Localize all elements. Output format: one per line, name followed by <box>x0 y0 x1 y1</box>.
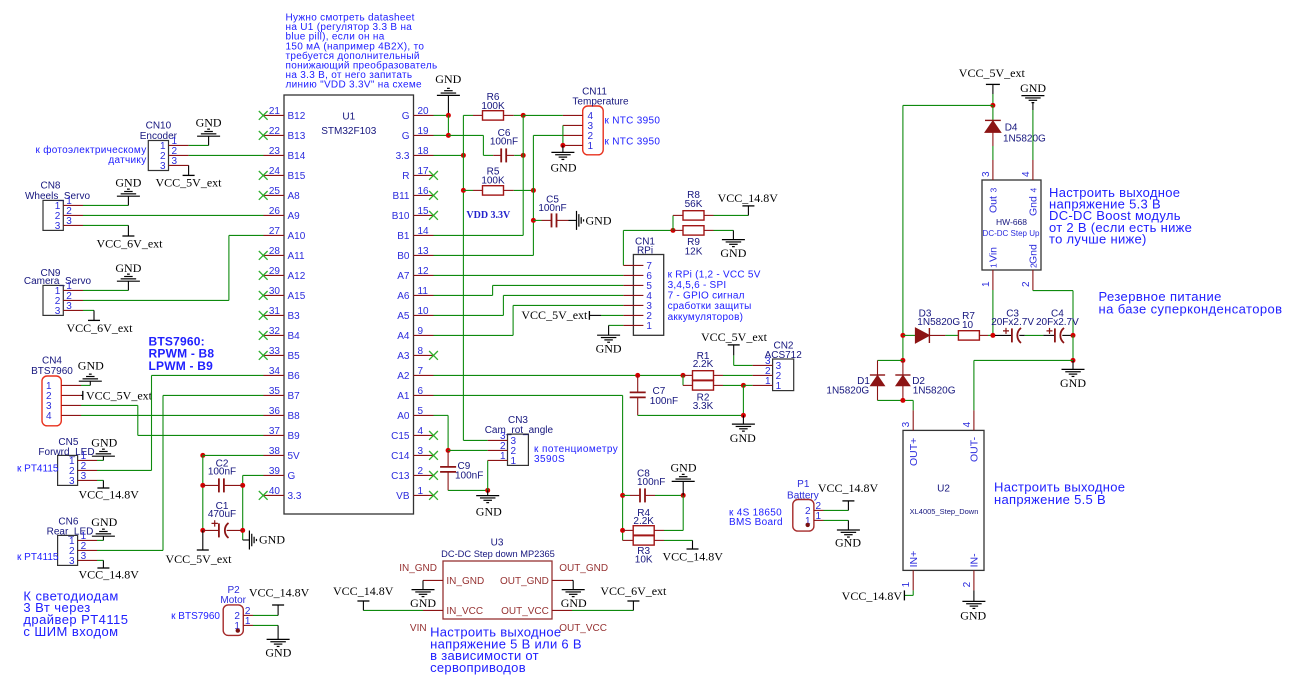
svg-text:12K: 12K <box>685 246 703 257</box>
no-connect X on U1 pin 4 <box>429 431 438 440</box>
CN1 pin 7 <box>623 264 643 266</box>
svg-text:BTS7960: BTS7960 <box>31 366 73 377</box>
U1 pin 33 B5 <box>264 354 285 356</box>
svg-text:7 - GPIO сигнал: 7 - GPIO сигнал <box>668 291 745 302</box>
wire C4 right down to GND node <box>1072 335 1074 360</box>
svg-text:GND: GND <box>78 358 104 372</box>
CN1 pin 5 <box>623 284 643 286</box>
svg-text:27: 27 <box>269 226 281 237</box>
no-connect X on U1 pin 25 <box>259 191 268 200</box>
svg-text:то лучше ниже): то лучше ниже) <box>1049 232 1147 247</box>
U1 pin 28 A11 <box>264 254 285 256</box>
wire VDD to R6 left <box>463 114 473 116</box>
svg-text:OUT_GND: OUT_GND <box>559 563 608 574</box>
svg-text:30: 30 <box>269 286 281 297</box>
node junction R4 left <box>620 528 625 533</box>
svg-text:GND: GND <box>596 342 622 356</box>
P2 pin 1 <box>243 624 253 626</box>
CN9 pin 1 <box>63 289 83 291</box>
svg-text:20Fx2.7V: 20Fx2.7V <box>991 317 1034 328</box>
CN11 pin 2 <box>563 134 583 136</box>
U1 pin 35 B7 <box>264 394 285 396</box>
svg-text:LPWM - B9: LPWM - B9 <box>149 359 214 373</box>
no-connect X on U1 pin 15 <box>429 211 438 220</box>
connector CN6 body <box>58 535 78 565</box>
svg-text:C15: C15 <box>391 431 410 442</box>
power VCC_6V_ext at CN8 pin3 <box>127 225 129 236</box>
wire R3 right to VCC_14.8V <box>664 539 693 541</box>
svg-text:GND: GND <box>476 505 502 519</box>
U1 pin 3 C14 <box>414 454 434 456</box>
ground symbol at U2 IN- <box>973 590 975 601</box>
svg-text:A2: A2 <box>397 371 410 382</box>
svg-text:A6: A6 <box>397 291 410 302</box>
svg-text:10: 10 <box>418 306 430 317</box>
svg-text:к NTC 3950: к NTC 3950 <box>605 136 661 147</box>
svg-text:1N5820G: 1N5820G <box>826 386 869 397</box>
CN11 pin 1 <box>563 144 583 146</box>
capacitor C9 <box>447 450 449 467</box>
svg-text:36: 36 <box>269 406 281 417</box>
CN2 pin 2 <box>753 374 773 376</box>
CN11 pin 4 <box>563 114 583 116</box>
ground symbol right of C5 <box>569 219 577 221</box>
svg-text:100nF: 100nF <box>650 396 678 407</box>
svg-text:1: 1 <box>989 263 999 268</box>
regulator U3 body <box>443 561 552 619</box>
no-connect X on U1 pin 3 <box>429 451 438 460</box>
svg-text:3.3: 3.3 <box>288 491 302 502</box>
wire U1 G pin39 to C2/C1 right <box>243 474 264 476</box>
no-connect X on U1 pin 24 <box>259 171 268 180</box>
U3 pin IN_GND <box>423 579 443 581</box>
svg-text:1: 1 <box>646 321 652 332</box>
U1 pin 34 B6 <box>264 374 285 376</box>
svg-text:Gnd: Gnd <box>1028 244 1040 264</box>
resistor R2 <box>682 375 684 385</box>
svg-text:1: 1 <box>511 456 517 467</box>
U1 pin 24 B15 <box>264 174 285 176</box>
node junction C4 right <box>1071 333 1076 338</box>
U1 pin 9 A4 <box>414 334 434 336</box>
svg-text:IN_VCC: IN_VCC <box>446 606 483 617</box>
resistor R6 <box>473 114 483 116</box>
U1 pin 30 A15 <box>264 294 285 296</box>
HW-668 pin 2 Gnd bottom <box>1032 270 1034 290</box>
svg-text:3.3K: 3.3K <box>693 401 714 412</box>
svg-text:сработки защиты: сработки защиты <box>668 300 752 312</box>
svg-text:к фотоэлектрическому: к фотоэлектрическому <box>35 144 146 156</box>
wire CN10 pin1 to GND <box>189 144 209 146</box>
svg-text:22: 22 <box>269 126 281 137</box>
wire GND vertical pin20 to pin19 <box>447 115 449 135</box>
wire U1 A0 to CN3 pin2 <box>434 414 449 416</box>
svg-text:17: 17 <box>418 166 430 177</box>
no-connect X on U1 pin 31 <box>259 311 268 320</box>
wire C6 right to junction <box>514 154 523 156</box>
wire backup rail vertical <box>902 105 904 360</box>
svg-text:RPi: RPi <box>637 246 653 257</box>
svg-text:B10: B10 <box>392 211 410 222</box>
node junction R6 right <box>521 113 526 118</box>
svg-text:9: 9 <box>418 326 424 337</box>
svg-text:OUT_VCC: OUT_VCC <box>559 623 607 634</box>
svg-text:35: 35 <box>269 386 281 397</box>
node junction D2 anode <box>900 398 905 403</box>
svg-text:23: 23 <box>269 146 281 157</box>
U2 pin 3 OUT+ <box>912 410 914 430</box>
ground symbol at CN8 pin1 <box>127 196 129 205</box>
U1 pin 38 5V <box>264 454 285 456</box>
node junction A0/C9/CN3.2 <box>446 448 451 453</box>
no-connect X on U1 pin 28 <box>259 251 268 260</box>
ground symbol at CN1 pin1 <box>608 325 610 335</box>
U1 pin 31 B3 <box>264 314 285 316</box>
U1 pin 26 A9 <box>264 214 285 216</box>
svg-text:к PT4115: к PT4115 <box>17 552 59 563</box>
svg-text:OUT+: OUT+ <box>908 438 920 466</box>
ground symbol right of C1 <box>243 539 250 541</box>
svg-text:C13: C13 <box>391 471 410 482</box>
svg-text:D4: D4 <box>1005 122 1018 133</box>
svg-text:GND: GND <box>265 646 291 660</box>
diode D4 <box>992 105 994 120</box>
svg-text:3: 3 <box>989 188 999 193</box>
svg-text:1: 1 <box>776 381 782 392</box>
U1 pin 20 G <box>414 114 434 116</box>
connector CN11 body <box>583 106 604 155</box>
ground symbol above C8 right <box>682 481 684 495</box>
svg-text:3,4,5,6 - SPI: 3,4,5,6 - SPI <box>668 280 727 291</box>
wire CN1 pin1 to GND <box>609 324 624 326</box>
svg-text:OUT-: OUT- <box>969 436 981 462</box>
wire D1/D2 cathode rail <box>878 359 903 361</box>
svg-text:32: 32 <box>269 326 281 337</box>
wire CN4 pin3 to U1 B9 <box>81 404 138 406</box>
wire VDD 3.3V vertical <box>462 115 464 440</box>
ground symbol at U3 OUT_GND <box>572 579 573 581</box>
svg-text:3: 3 <box>55 306 61 317</box>
svg-text:A7: A7 <box>397 271 410 282</box>
svg-text:A10: A10 <box>288 231 306 242</box>
U1 pin 10 A5 <box>414 314 434 316</box>
CN1 pin 2 <box>623 314 643 316</box>
wire U1 A2 to R1 <box>434 374 638 376</box>
U1 pin 39 G <box>264 474 285 476</box>
U1 pin 15 B10 <box>414 214 434 216</box>
CN1 pin 1 <box>623 324 643 326</box>
CN4 pin 3 <box>61 404 81 406</box>
wire CN6 pin2 to U1 B7 <box>97 549 163 551</box>
svg-text:100nF: 100nF <box>538 203 566 214</box>
svg-text:3: 3 <box>69 556 75 567</box>
svg-text:20: 20 <box>418 106 430 117</box>
power VCC_14.8V at U3 input <box>362 601 364 610</box>
svg-text:VCC_5V_ext: VCC_5V_ext <box>156 175 223 189</box>
svg-text:GND: GND <box>1060 376 1086 390</box>
U3 pin OUT_VCC <box>552 609 572 611</box>
wire ADC2 top to CN11 pin2 <box>533 134 563 136</box>
no-connect X on U1 pin 32 <box>259 331 268 340</box>
U1 pin 2 C13 <box>414 474 434 476</box>
svg-text:15: 15 <box>418 206 430 217</box>
svg-text:CN10: CN10 <box>146 121 172 132</box>
svg-text:B12: B12 <box>288 111 306 122</box>
ground symbol at CN4 pin1 <box>89 381 91 385</box>
svg-text:100nF: 100nF <box>490 136 518 147</box>
wire R2 right to CN2 pin1 <box>723 384 743 386</box>
svg-text:IN-: IN- <box>969 553 981 568</box>
svg-text:P1: P1 <box>797 479 810 490</box>
svg-text:39: 39 <box>269 466 281 477</box>
svg-text:2: 2 <box>1021 281 1032 287</box>
svg-text:GND: GND <box>115 175 141 189</box>
wire CN3 pin1 down to GND <box>487 460 489 490</box>
connector CN8 body <box>43 200 63 230</box>
svg-text:к NTC 3950: к NTC 3950 <box>605 116 661 127</box>
svg-text:56K: 56K <box>685 199 703 210</box>
svg-text:GND: GND <box>720 246 746 260</box>
wire 5V rail vertical <box>202 455 204 530</box>
svg-text:VCC_6V_ext: VCC_6V_ext <box>97 236 164 250</box>
wire C9 bottom to GND <box>448 489 488 491</box>
svg-text:7: 7 <box>418 366 424 377</box>
wire GND row to U2 OUT- <box>974 359 1073 361</box>
CN5 pin 3 <box>78 479 97 481</box>
wire junction to CN11 pin4 <box>523 114 563 116</box>
CN3 pin 1 <box>488 459 508 461</box>
wire CN8 pin1 to GND <box>83 204 128 206</box>
wire C7 bottom to GND junction <box>638 414 744 416</box>
svg-text:VCC_6V_ext: VCC_6V_ext <box>600 584 667 598</box>
svg-text:3590S: 3590S <box>534 454 565 465</box>
svg-text:A15: A15 <box>288 291 306 302</box>
wire CN8 pin3 to VCC_6V_ext <box>83 224 128 226</box>
node junction C7 top <box>635 373 640 378</box>
svg-text:Temperature: Temperature <box>572 96 629 107</box>
ground symbol above U1 G pins <box>447 95 449 115</box>
svg-text:100K: 100K <box>481 175 505 186</box>
svg-text:3: 3 <box>172 156 178 167</box>
svg-text:VCC_5V_ext: VCC_5V_ext <box>701 330 768 344</box>
svg-text:GND: GND <box>410 596 436 610</box>
U1 pin 18 3.3 <box>414 154 434 156</box>
wire VCC_5V to left vertical <box>903 104 993 106</box>
node junction VCC_5V right <box>990 103 995 108</box>
svg-text:3: 3 <box>418 446 424 457</box>
resistor R8 <box>672 215 674 230</box>
svg-text:VCC_14.8V: VCC_14.8V <box>718 191 779 205</box>
wire U1 pin13 B0 <box>434 254 534 256</box>
CN8 pin 3 <box>63 224 83 226</box>
svg-text:A5: A5 <box>397 311 410 322</box>
svg-text:VCC_14.8V: VCC_14.8V <box>333 584 394 598</box>
svg-text:GND: GND <box>586 214 612 228</box>
node junction VDD at R5 <box>461 188 466 193</box>
svg-text:3: 3 <box>160 161 166 172</box>
ground symbol at CN5 pin1 <box>102 456 104 460</box>
ground symbol below CN2 <box>742 415 744 424</box>
svg-text:G: G <box>288 471 296 482</box>
svg-text:с ШИМ входом: с ШИМ входом <box>23 624 118 639</box>
P1 pin1 polarity dot <box>806 523 810 527</box>
svg-text:B6: B6 <box>288 371 301 382</box>
no-connect X on U1 pin 16 <box>429 191 438 200</box>
capacitor C5 <box>531 218 536 223</box>
node junction G pin19 <box>446 133 451 138</box>
no-connect X on U1 pin 40 <box>259 491 268 500</box>
svg-text:8: 8 <box>418 346 424 357</box>
CN5 pin 1 <box>78 459 97 461</box>
node junction Vin/C3 <box>990 333 995 338</box>
svg-text:U2: U2 <box>937 484 950 495</box>
resistor R3 <box>623 539 634 541</box>
wire R2 junction down to GND row <box>742 385 744 415</box>
wire U2 IN+ to VCC_14.8V <box>912 590 914 595</box>
wire ADC2 vertical <box>532 135 534 255</box>
svg-text:сервоприводов: сервоприводов <box>430 660 526 675</box>
svg-text:к PT4115: к PT4115 <box>17 464 59 475</box>
svg-text:B8: B8 <box>288 411 301 422</box>
svg-text:12: 12 <box>418 266 430 277</box>
CN5 pin 2 <box>78 469 97 471</box>
wire U3 IN_VCC to VCC_14.8V <box>363 609 423 611</box>
wire U1 pin18 3.3 to VDD vertical <box>434 154 464 156</box>
svg-text:U3: U3 <box>491 538 504 549</box>
svg-text:B13: B13 <box>288 131 306 142</box>
U3 pin IN_VCC <box>423 609 443 611</box>
svg-text:VCC_14.8V: VCC_14.8V <box>663 549 724 563</box>
svg-text:VCC_5V_ext: VCC_5V_ext <box>166 552 233 566</box>
wire U3 OUT_VCC to VCC_6V_ext <box>572 609 633 611</box>
svg-text:4: 4 <box>1021 171 1032 177</box>
svg-text:HW-668: HW-668 <box>996 217 1027 227</box>
svg-text:100nF: 100nF <box>208 467 236 478</box>
node junction GND rail right <box>1071 358 1076 363</box>
connector CN3 body <box>508 434 529 465</box>
diode D3 <box>903 334 916 336</box>
CN1 pin 3 <box>623 304 643 306</box>
CN10 pin 3 <box>169 164 189 166</box>
ground symbol at U3 IN_GND <box>422 580 424 589</box>
svg-text:34: 34 <box>269 366 281 377</box>
svg-text:2: 2 <box>1029 263 1039 268</box>
U1 pin 22 B13 <box>264 134 285 136</box>
svg-text:1N5820G: 1N5820G <box>913 386 956 397</box>
svg-text:2.2K: 2.2K <box>693 359 714 370</box>
wire D4 to HW-668 Out <box>992 146 994 160</box>
svg-text:A11: A11 <box>288 251 305 262</box>
HW-668 pin 1 Vin <box>992 270 994 290</box>
no-connect X on U1 pin 2 <box>429 471 438 480</box>
svg-text:100nF: 100nF <box>637 477 665 488</box>
svg-text:на базе суперконденсаторов: на базе суперконденсаторов <box>1099 302 1283 317</box>
node junction R1 left <box>681 373 686 378</box>
wire U1 pin20 G to GND stub <box>434 114 449 116</box>
wire CN11 pin3 down to pin1 row <box>562 125 564 145</box>
wire U1 A5 to CN1 pin4 <box>434 314 504 316</box>
svg-text:B7: B7 <box>288 391 301 402</box>
svg-text:2: 2 <box>962 581 973 587</box>
no-connect X on U1 pin 8 <box>429 351 438 360</box>
module HW-668 body <box>982 180 1041 270</box>
wire C8 right down to R4 right <box>682 495 684 530</box>
svg-text:A4: A4 <box>397 331 410 342</box>
wire GND branch to C6 left <box>448 134 483 136</box>
svg-text:GND: GND <box>91 435 117 449</box>
connector CN5 body <box>58 455 78 485</box>
svg-text:18: 18 <box>418 146 430 157</box>
svg-text:GND: GND <box>259 533 285 547</box>
wire CN1 pin7 riser <box>622 230 624 265</box>
resistor R1 <box>683 374 693 376</box>
svg-text:2.2K: 2.2K <box>633 516 654 527</box>
svg-text:A0: A0 <box>397 411 410 422</box>
wire CN5 pin2 to U1 B6 <box>97 469 152 471</box>
svg-text:к RPi (1,2 - VCC 5V: к RPi (1,2 - VCC 5V <box>668 269 761 280</box>
U1 pin 6 A1 <box>414 394 434 396</box>
svg-text:1: 1 <box>816 511 822 522</box>
svg-text:40: 40 <box>269 486 281 497</box>
wire R1 right to CN2 pin2 <box>723 374 753 376</box>
wire P2 pin2 to VCC_14.8V <box>253 614 278 616</box>
CN1 pin 4 <box>623 294 643 296</box>
CN10 pin 1 <box>169 144 189 146</box>
svg-text:14: 14 <box>418 226 430 237</box>
wire D3 to R7 <box>945 334 958 336</box>
wire R8 right to VCC_14.8V <box>714 214 749 216</box>
no-connect X on U1 pin 17 <box>429 171 438 180</box>
svg-text:напряжение 5.5 В: напряжение 5.5 В <box>994 492 1106 507</box>
ground symbol at R9 <box>732 230 734 239</box>
svg-text:VCC_14.8V: VCC_14.8V <box>249 585 310 599</box>
regulator U2 body <box>903 430 984 570</box>
diode D2 <box>902 360 904 375</box>
U2 pin 2 IN- <box>973 570 975 590</box>
svg-text:DC-DC Step down MP2365: DC-DC Step down MP2365 <box>441 549 555 559</box>
svg-text:к BTS7960: к BTS7960 <box>171 611 220 622</box>
wire U1 pin19 G <box>434 134 449 136</box>
P1 pin 2 <box>814 509 824 511</box>
node junction CN3 GND <box>485 488 490 493</box>
node 5V rail junction <box>200 453 205 458</box>
svg-text:Out: Out <box>988 196 1000 213</box>
power VCC_5V_ext at CN4 pin2 <box>81 394 83 396</box>
node junction R5 right <box>531 188 536 193</box>
no-connect X on U1 pin 22 <box>259 131 268 140</box>
U2 pin 1 IN+ <box>912 570 914 590</box>
svg-text:B9: B9 <box>288 431 301 442</box>
svg-text:A9: A9 <box>288 211 301 222</box>
svg-text:29: 29 <box>269 266 281 277</box>
svg-text:датчику: датчику <box>108 155 146 166</box>
wire U1 A6 to CN1 pin5 <box>434 294 493 296</box>
svg-text:B1: B1 <box>397 231 410 242</box>
wire CN10 pin2 to U1 B14 <box>189 154 264 156</box>
wire VDD to CN3 pin3 <box>463 439 487 441</box>
svg-text:VCC_14.8V: VCC_14.8V <box>79 487 140 501</box>
diode D1 <box>877 360 879 375</box>
svg-text:4: 4 <box>962 421 973 427</box>
svg-text:R: R <box>402 171 409 182</box>
wire U1 A4 to CN1 pin3 <box>434 334 514 336</box>
svg-text:A12: A12 <box>288 271 306 282</box>
wire CN9 pin3 to VCC_6V_ext <box>83 309 94 311</box>
U1 pin 12 A7 <box>414 274 434 276</box>
svg-text:470uF: 470uF <box>208 509 236 520</box>
ground symbol below C4 <box>1072 360 1074 369</box>
svg-text:31: 31 <box>269 306 281 317</box>
